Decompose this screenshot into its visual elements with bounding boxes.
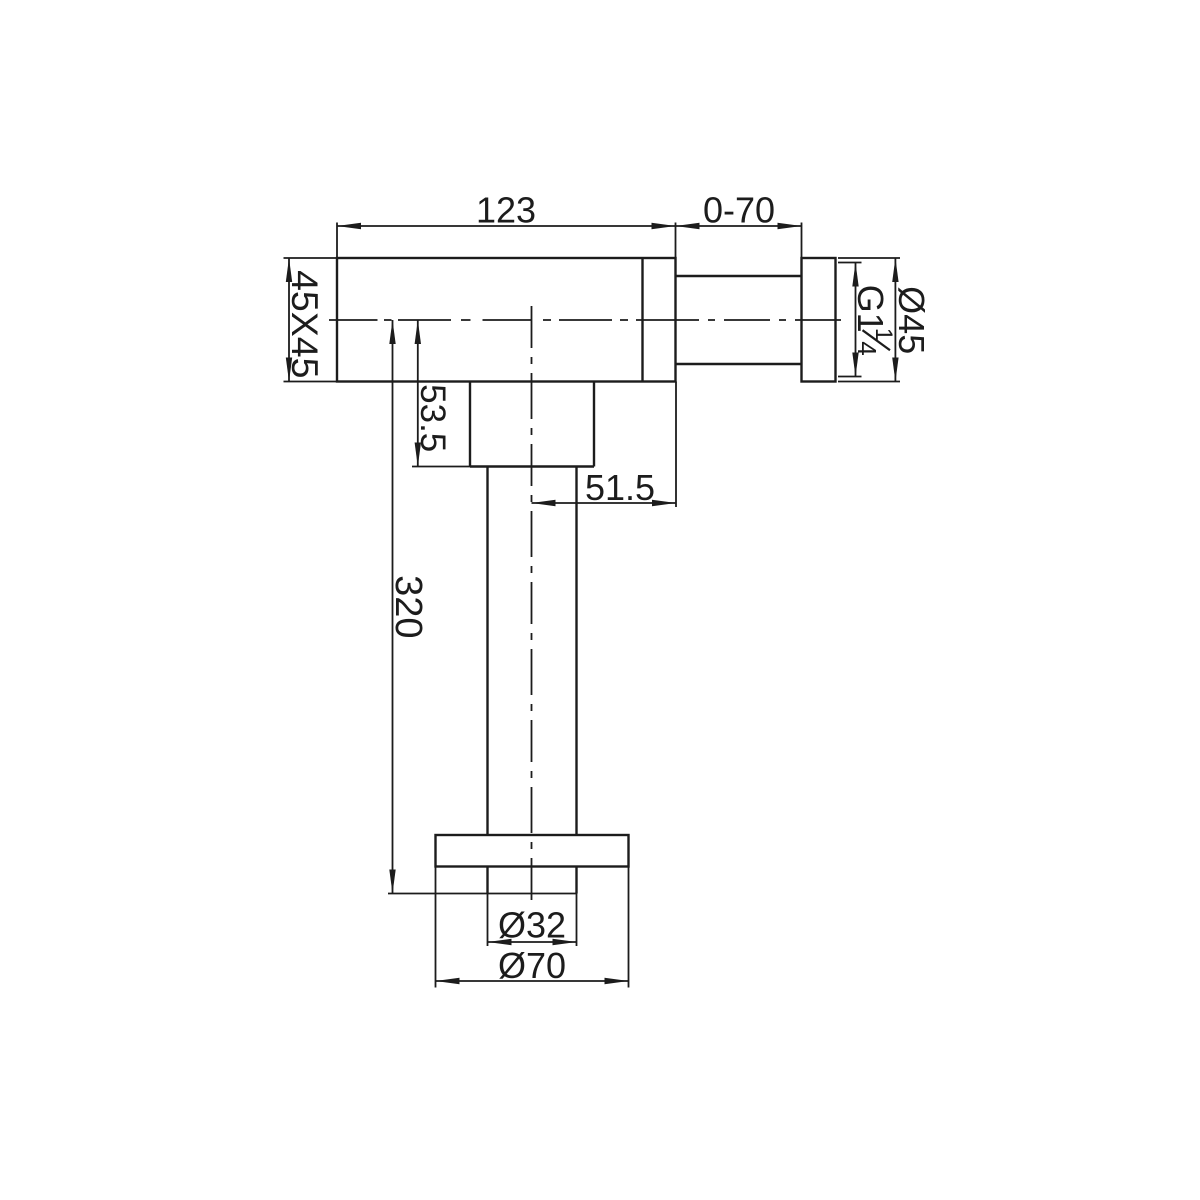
dim 123 / 0-70 shared extension	[675, 223, 677, 259]
dim 123 extension left	[336, 223, 338, 259]
body: tube end cap line	[641, 258, 643, 382]
svg-text:Ø45: Ø45	[891, 286, 932, 354]
centerline horizontal left part	[329, 319, 675, 321]
arrow 45X45 top	[286, 258, 292, 282]
dim O45 extension top	[838, 257, 900, 259]
dim O70 line	[436, 980, 629, 982]
arrow 0-70 right	[778, 223, 802, 229]
arrow O45 top	[892, 258, 898, 282]
dim 45X45 line	[288, 258, 290, 382]
arrow 320 top	[389, 320, 395, 344]
arrow 0-70 left	[676, 223, 700, 229]
arrow O32 left	[488, 939, 512, 945]
dim 53.5 line	[417, 320, 419, 467]
body: trap block left edge	[469, 382, 471, 467]
svg-text:G1: G1	[850, 285, 891, 333]
svg-text:51.5: 51.5	[585, 467, 655, 508]
arrow 51.5 right	[652, 500, 676, 506]
dim 320 extension / pipe bottom	[388, 893, 577, 895]
label G1 1/4 rotated	[850, 285, 897, 356]
arrow 123 right	[652, 223, 676, 229]
svg-text:320: 320	[387, 575, 429, 638]
dim G1-1/4 line	[855, 263, 857, 377]
dim O45 line	[894, 258, 896, 382]
arrow G1-1/4 top	[852, 263, 858, 287]
arrow O32 right	[553, 939, 577, 945]
svg-text:53.5: 53.5	[413, 384, 452, 452]
dim O32 line	[488, 941, 577, 943]
dim 0-70 line	[676, 225, 802, 227]
body: trap block bottom edge	[470, 465, 594, 467]
dim 53.5 extension bottom	[412, 466, 470, 468]
body: tail pipe left edge	[486, 467, 488, 836]
centerline vertical	[531, 306, 533, 900]
body: telescopic pipe bottom edge	[676, 363, 802, 365]
arrow 53.5 top	[415, 320, 421, 344]
dim 45X45 extension bottom	[284, 381, 338, 383]
dim O70 extension right	[628, 867, 630, 988]
svg-text:45X45: 45X45	[284, 270, 326, 378]
body: telescopic pipe top edge	[676, 275, 802, 277]
svg-text:Ø32: Ø32	[498, 905, 566, 946]
dim O45 extension bottom	[838, 381, 900, 383]
svg-text:4: 4	[852, 341, 882, 355]
dim G1-1/4 extension top	[838, 262, 862, 264]
body: top square tube 45x45	[337, 258, 676, 382]
dim 123 line	[337, 225, 676, 227]
arrow O45 bottom	[892, 358, 898, 382]
body: tail pipe right edge	[575, 467, 577, 836]
dim O32 extension left	[487, 894, 489, 947]
body: wall nut G1 1/4	[802, 258, 836, 382]
body: tail pipe below flange left	[486, 867, 488, 894]
arrow 53.5 bottom	[415, 443, 421, 467]
svg-text:Ø70: Ø70	[498, 945, 566, 986]
dim O70 extension left	[435, 867, 437, 988]
dim 0-70 extension right	[801, 223, 803, 259]
arrow O70 right	[605, 978, 629, 984]
dim 51.5 extension right	[675, 382, 677, 508]
svg-text:0-70: 0-70	[703, 190, 775, 231]
body: floor flange disc	[436, 835, 629, 867]
arrow 123 left	[337, 223, 361, 229]
body: trap block right edge	[593, 382, 595, 467]
dim G1-1/4 extension bottom	[838, 376, 862, 378]
arrow 320 bottom	[389, 870, 395, 894]
body: tail pipe below flange right	[575, 867, 577, 894]
arrow G1-1/4 bottom	[852, 353, 858, 377]
dim 320 line	[392, 320, 394, 894]
dim 45X45 extension top	[284, 257, 338, 259]
arrow 51.5 left	[532, 500, 556, 506]
svg-text:123: 123	[476, 190, 536, 231]
dim O32 extension right	[576, 894, 578, 947]
dim 51.5 line	[532, 502, 677, 504]
arrow O70 left	[436, 978, 460, 984]
arrow 45X45 bottom	[286, 358, 292, 382]
centerline horizontal right part	[675, 319, 843, 321]
